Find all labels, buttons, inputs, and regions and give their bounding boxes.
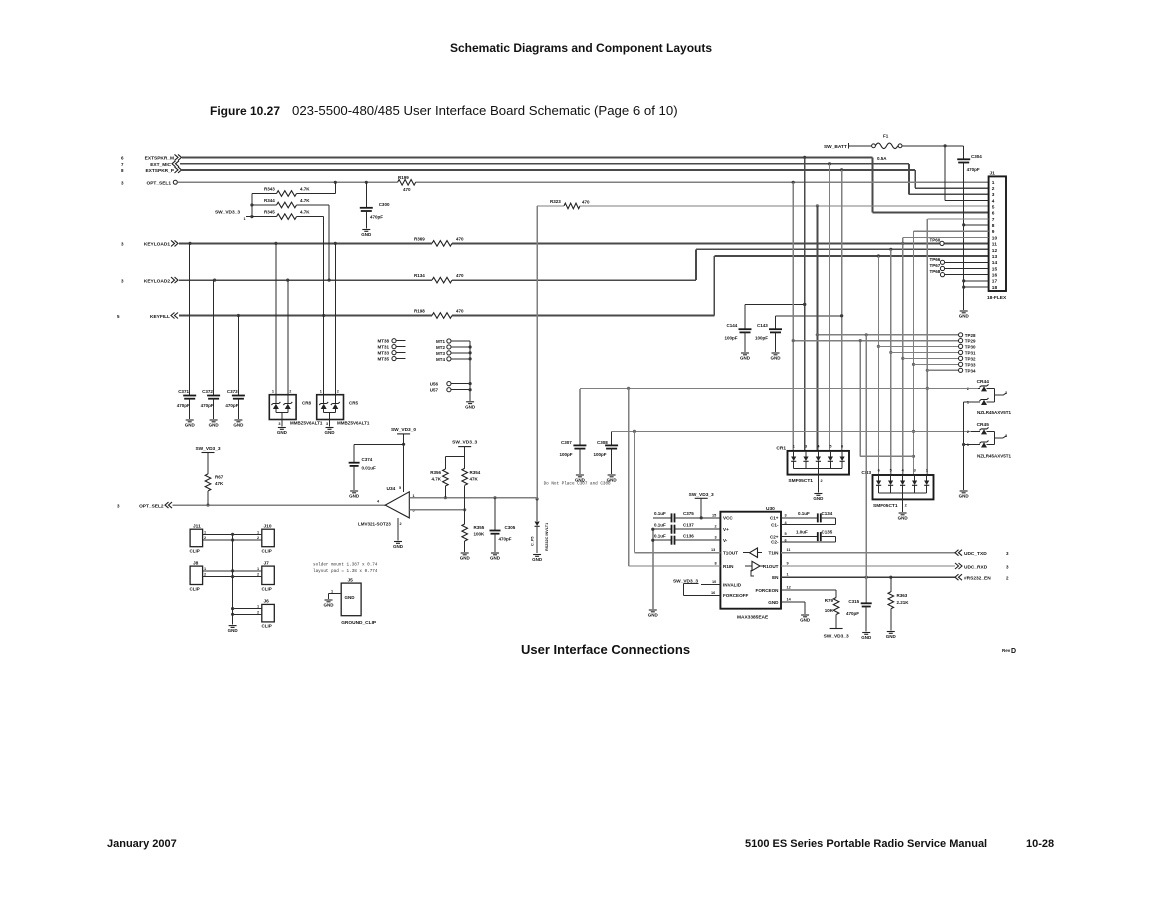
svg-text:8: 8 [121,168,124,173]
wire U34 inverting input [409,508,466,511]
svg-text:4.7K: 4.7K [431,477,441,482]
wire R345 to MMBZ pin1 [323,217,325,404]
capacitor C135 C2 loop [781,530,836,542]
svg-text:470: 470 [403,187,411,192]
wire R1IN [629,388,721,566]
ground CR44 CR45 [959,491,970,499]
svg-text:J10: J10 [264,524,272,530]
svg-text:R356: R356 [430,470,441,475]
svg-text:OPT_SEL2: OPT_SEL2 [139,504,164,510]
resistor R67 [205,453,224,506]
svg-text:6: 6 [992,211,995,217]
svg-text:MT4: MT4 [436,357,445,362]
svg-text:EN: EN [772,575,779,580]
svg-text:U30: U30 [766,506,775,512]
svg-text:1: 1 [257,567,259,571]
svg-text:GND: GND [325,430,336,435]
svg-text:V-: V- [723,538,728,543]
label MMBZ5V6ALT1 left [290,421,323,426]
svg-text:J11: J11 [193,524,201,530]
svg-text:MAX3385EAE: MAX3385EAE [737,615,769,621]
net label SW_VD3_3 INVALID [673,579,720,596]
svg-text:100pF: 100pF [560,452,573,457]
svg-text:10: 10 [992,235,998,241]
svg-text:VCC: VCC [723,516,733,521]
connector J11 [190,524,203,554]
svg-text:470: 470 [456,273,464,278]
svg-text:R345: R345 [264,210,275,215]
svg-text:1: 1 [204,530,206,534]
wire CR5 pin leads [320,390,339,394]
svg-text:3: 3 [326,422,328,426]
svg-text:GND: GND [959,314,970,319]
svg-text:MMBZ5V6ALT1: MMBZ5V6ALT1 [337,421,370,426]
wire CR3 pin3 feed pin9 [912,231,915,475]
svg-text:OPT_SEL1: OPT_SEL1 [146,181,171,187]
svg-text:18: 18 [992,285,998,291]
svg-text:EXT_MIC: EXT_MIC [150,162,171,168]
test points U56 U57 [430,382,472,393]
resistor R354 [462,468,481,510]
svg-text:3: 3 [121,242,124,247]
wire CR3 pin6 feed from KEYFILL [877,256,880,475]
svg-text:MT33: MT33 [377,351,389,356]
svg-text:CLIP: CLIP [262,549,272,554]
svg-text:C1-: C1- [771,522,779,527]
svg-text:470pF: 470pF [225,403,238,408]
resistor R343 [252,187,335,197]
wire KEYLOAD2 [179,248,989,282]
capacitor C307 [560,389,587,474]
dual diode CR44 NZLR45AXV5T1 [967,379,1012,415]
svg-text:5: 5 [829,445,831,449]
svg-text:1: 1 [331,589,333,593]
wire C373 lead [237,316,239,396]
svg-text:EXTSPKR_M: EXTSPKR_M [145,156,174,162]
svg-text:GND: GND [648,613,659,618]
svg-text:4: 4 [377,500,380,504]
label MMBZ5V6ALT1 right [337,421,370,426]
svg-text:R67: R67 [215,475,224,480]
resistor R323 [537,199,590,209]
svg-text:R355: R355 [474,525,485,530]
wire U34 noninverting input [409,496,537,499]
svg-text:5: 5 [992,205,995,211]
wire EXT_MIC bus [180,162,989,194]
wire OPT_SEL1 [178,181,989,184]
resistor R363 [888,577,909,630]
svg-text:2.21K: 2.21K [897,600,910,605]
svg-text:3: 3 [121,278,124,283]
svg-text:11: 11 [992,242,997,248]
revision mark [1002,648,1016,655]
ground C307 [575,475,586,483]
wire MT ground bus [469,341,471,401]
svg-text:RS232C INVLT1: RS232C INVLT1 [545,523,549,551]
svg-text:2: 2 [257,610,259,614]
svg-text:C134: C134 [822,511,833,516]
svg-text:1: 1 [926,469,928,473]
svg-text:1: 1 [204,567,206,571]
svg-text:R198: R198 [414,309,425,314]
ground CR5 [325,420,336,436]
svg-text:3: 3 [805,445,807,449]
svg-text:GND: GND [460,556,471,561]
capacitor C143 [755,314,843,352]
wire CR3 pin4 feed from KEYLOAD1 [901,237,904,475]
wire T1IN UDC_TXD [781,550,1009,558]
svg-text:R134: R134 [414,273,425,278]
svg-text:EXTSPKR_P: EXTSPKR_P [145,168,174,174]
svg-text:C143: C143 [757,323,768,328]
svg-text:100pF: 100pF [725,336,738,341]
svg-text:KEYFILL: KEYFILL [150,314,170,320]
resistor R344 [252,198,329,208]
ground C143 [771,353,782,361]
svg-text:C300: C300 [379,202,390,207]
svg-text:3: 3 [121,181,124,186]
svg-text:J6: J6 [264,599,270,605]
svg-text:CLIP: CLIP [262,624,272,629]
svg-text:R199: R199 [398,175,409,180]
svg-text:0.01uF: 0.01uF [362,466,377,471]
svg-text:10-28: 10-28 [1026,838,1054,850]
wire resistor feed bus [250,194,253,219]
svg-text:1: 1 [787,573,789,577]
svg-text:CR8: CR8 [302,401,311,406]
ground R363 [886,632,897,640]
connector J10 [262,524,275,554]
svg-text:47K: 47K [470,477,479,482]
svg-text:12: 12 [787,586,791,590]
svg-text:6: 6 [878,469,880,473]
svg-text:TP29: TP29 [965,339,976,344]
wire U30 GND pin [781,602,805,614]
svg-text:FORCEOFF: FORCEOFF [723,593,748,598]
diode array CR3 SMF05CT1 [861,469,933,509]
svg-text:2: 2 [257,573,259,577]
svg-text:13: 13 [992,254,998,260]
svg-text:10K: 10K [825,608,834,613]
wire clip ground bus [232,534,234,624]
svg-text:U34: U34 [387,486,396,492]
wire SW_BATT to pin4 and C304 [902,144,989,200]
svg-text:023-5500-480/485 User Interfac: 023-5500-480/485 User Interface Board Sc… [292,103,678,118]
wire R1OUT UDC_RXD [781,563,1009,571]
svg-text:MT31: MT31 [377,345,389,350]
wire R343 to OPT_SEL1 [334,182,336,193]
svg-text:SW_VD3_3: SW_VD3_3 [824,634,849,640]
pin numbers U30 right [785,513,792,601]
wire J1 pin10 [903,236,989,238]
wire R344 to KEYLOAD2 [328,205,330,280]
wire KEYLOAD1 to MMBZ1 pin1 [275,243,277,404]
svg-text:INVALID: INVALID [723,583,742,588]
svg-text:MT35: MT35 [377,357,389,362]
capacitor C305 [490,498,516,552]
svg-text:C304: C304 [971,154,982,159]
ground U30 [800,615,811,623]
svg-text:TP67: TP67 [930,263,941,268]
wire TP29 step [860,341,913,457]
wire R323 to J1 pin5 [580,204,989,207]
net label SW_VD3_3 below R79 [824,629,849,640]
zener dual CR5 MMBZ5V6ALT1 [317,395,359,420]
svg-text:R369: R369 [414,237,425,242]
svg-text:CLIP: CLIP [190,587,200,592]
svg-text:GND: GND [898,516,909,521]
svg-text:17: 17 [992,279,998,285]
ground C305 [490,553,501,561]
svg-text:R344: R344 [264,198,275,203]
svg-text:0.1uF: 0.1uF [654,511,666,516]
wire KEYLOAD2 to MMBZ1 pin2 [287,280,289,404]
wire R354 R356 feed [445,447,464,469]
svg-text:GND: GND [800,618,811,623]
svg-text:January 2007: January 2007 [107,838,177,850]
wire T1OUT [635,431,721,552]
wire CR1 pin4 feed from R323 line [816,206,819,451]
svg-text:User Interface Connections: User Interface Connections [521,642,690,657]
svg-text:CR1: CR1 [776,446,786,452]
svg-text:C2+: C2+ [770,534,779,539]
svg-text:Rev: Rev [1002,648,1011,653]
svg-text:11: 11 [787,548,791,552]
svg-text:TP33: TP33 [965,362,976,367]
svg-text:2: 2 [967,430,969,434]
capacitor C373 [225,389,245,428]
svg-text:C144: C144 [727,323,738,328]
svg-text:470: 470 [582,199,590,204]
svg-text:4.7K: 4.7K [300,210,310,215]
svg-text:CR44: CR44 [977,379,990,385]
svg-text:3: 3 [1005,434,1007,438]
svg-text:R363: R363 [897,593,908,598]
svg-text:3: 3 [715,536,717,540]
svg-text:UDC_RXD: UDC_RXD [964,565,988,571]
pin numbers U30 left [711,513,717,595]
svg-text:5: 5 [785,532,787,536]
svg-text:UDC_TXD: UDC_TXD [964,551,987,557]
svg-text:GND: GND [349,494,360,499]
node KEYLOAD1 [121,240,178,247]
svg-text:U57: U57 [430,388,439,393]
test points MT1-MT4 [436,339,472,362]
test point TP60 [930,238,945,246]
svg-text:R79: R79 [825,598,834,603]
ground U34 [393,542,404,550]
resistor R345 [252,210,324,220]
node EXT_MIC [121,161,179,168]
svg-text:GND: GND [185,423,196,428]
svg-text:4: 4 [992,198,995,204]
svg-text:2: 2 [1006,576,1009,581]
svg-text:2: 2 [204,573,206,577]
svg-text:47K: 47K [215,481,224,486]
svg-text:3: 3 [1006,565,1009,570]
wire CR3 pin5 feed from KEYLOAD2 [889,249,892,475]
node EXTSPKR_P [121,167,182,174]
svg-text:2: 2 [337,390,339,394]
ground U30 caps [648,610,659,618]
figure caption [210,103,678,118]
svg-text:KEYLOAD1: KEYLOAD1 [144,242,170,248]
resistor R369 [414,237,464,247]
svg-text:Figure 10.27: Figure 10.27 [210,104,280,118]
svg-text:3: 3 [992,192,995,198]
capacitor C372 [201,389,221,428]
svg-text:16: 16 [711,591,715,595]
svg-text:MMBZ5V6ALT1: MMBZ5V6ALT1 [290,421,323,426]
svg-text:2: 2 [905,504,907,508]
node KEYLOAD2 [121,277,178,284]
ground C308 [607,475,618,483]
svg-text:470: 470 [456,309,464,314]
wire KEYFILL [179,254,989,317]
capacitor C308 [594,431,619,474]
svg-text:1: 1 [793,445,795,449]
svg-text:V+: V+ [723,527,729,532]
wire J11-J10 [203,530,262,541]
dual diode CR45 NZLR45AXV5T1 [967,422,1012,459]
net label SW_VD3_3 at VCC [689,492,714,518]
footer left [107,838,177,850]
svg-text:470pF: 470pF [177,403,190,408]
svg-text:MT2: MT2 [436,345,445,350]
wire U34 output gnd lead [397,518,399,541]
svg-text:SW_VD3_3: SW_VD3_3 [689,492,714,498]
svg-text:#RS232_EN: #RS232_EN [964,576,991,582]
capacitor C371 [177,389,197,428]
footer right [745,838,1054,850]
svg-text:4.7K: 4.7K [300,198,310,203]
svg-text:100pF: 100pF [755,336,768,341]
svg-text:GND: GND [228,628,239,633]
test point group TP28-TP34 [792,333,976,374]
ground for C_P5 [532,555,543,563]
svg-text:U56: U56 [430,382,439,387]
svg-text:0.1uF: 0.1uF [654,533,666,538]
svg-text:470pF: 470pF [846,611,859,616]
resistor R79 FORCEON [781,590,839,629]
svg-text:1.0uF: 1.0uF [796,530,808,535]
capacitor C134 C1 loop [781,511,836,525]
svg-text:LMV321-SOT23: LMV321-SOT23 [358,522,391,527]
connector J5 GROUND_CLIP [341,577,377,626]
svg-text:GND: GND [393,544,404,549]
svg-text:1: 1 [244,217,246,221]
node OPT_SEL1 [121,180,177,186]
page header [450,41,712,55]
node OPT_SEL2 [117,502,172,510]
svg-text:FORCEON: FORCEON [756,588,780,593]
svg-text:2: 2 [992,186,995,192]
capacitor C144 [725,303,807,352]
svg-text:GND: GND [277,430,288,435]
svg-text:2: 2 [289,390,291,394]
svg-text:CLIP: CLIP [190,549,200,554]
svg-text:MT3: MT3 [436,351,445,356]
svg-text:C_P5: C_P5 [531,537,535,547]
svg-text:16: 16 [992,273,998,279]
svg-text:TP34: TP34 [965,368,976,373]
svg-text:Schematic Diagrams and Compone: Schematic Diagrams and Component Layouts [450,41,712,55]
svg-text:8: 8 [992,223,995,229]
ground CR3 [898,513,909,521]
svg-text:J8: J8 [193,561,199,567]
connector J6 [262,599,275,629]
svg-text:GND: GND [886,634,897,639]
svg-text:GND: GND [345,595,356,600]
svg-text:8: 8 [715,562,717,566]
svg-text:5100 ES Series Portable Radio: 5100 ES Series Portable Radio Service Ma… [745,838,987,850]
net label SW_VD3_3 [215,210,252,221]
svg-text:2: 2 [821,479,823,483]
svg-text:SMF05CT1: SMF05CT1 [873,503,898,509]
svg-text:TP31: TP31 [965,350,976,355]
diode C_P5 on RS232C_INVLT1 [531,499,550,553]
svg-text:100K: 100K [474,532,486,537]
svg-text:7: 7 [992,217,995,223]
svg-text:TP66: TP66 [930,257,941,262]
svg-text:4.7K: 4.7K [300,187,310,192]
ground R355 [460,553,471,561]
resistor R198 [414,309,464,319]
svg-text:NZLR45AXV5T1: NZLR45AXV5T1 [977,410,1012,415]
node EXTSPKR_M [121,154,182,161]
wire CR1 pin3 feed from EXTSPKR_M [803,157,806,451]
svg-text:C137: C137 [683,522,694,527]
capacitor C300 [360,182,390,237]
resistor R356 [430,469,448,498]
capacitor C375 on VCC [653,511,720,522]
test points MT38 MT31 MT33 MT35 [377,339,405,362]
svg-text:2: 2 [715,525,717,529]
wire CR44 CR45 pin1 ground bus [962,402,980,490]
svg-text:15: 15 [712,513,716,517]
wire EN RS232_EN [781,574,1009,582]
svg-text:470pF: 470pF [499,537,512,542]
svg-text:18-FLEX: 18-FLEX [987,295,1007,301]
ground CR1 [813,494,824,502]
svg-text:solder mount 1.387 x 0.74: solder mount 1.387 x 0.74 [313,563,378,568]
connector J7 [262,561,275,592]
svg-text:12: 12 [992,248,998,254]
wire CR1 pin2 [818,475,822,493]
svg-text:GND: GND [768,600,779,605]
svg-text:TP68: TP68 [930,269,941,274]
svg-text:CLIP: CLIP [262,587,272,592]
svg-text:SW_VD3_3: SW_VD3_3 [215,210,240,216]
svg-text:3: 3 [914,469,916,473]
wire J8-J7 [203,567,262,578]
svg-text:C135: C135 [822,530,833,535]
svg-text:GND: GND [861,635,872,640]
net label SW_VD3_3 at R354 [452,440,477,447]
svg-text:J5: J5 [348,577,354,583]
diode array CR1 SMF05CT1 [776,445,849,485]
wire C372 lead [213,280,215,395]
svg-text:470: 470 [456,237,464,242]
svg-text:4: 4 [817,445,820,449]
wire EXTSPKR_M bus [182,156,989,213]
svg-text:R354: R354 [470,470,481,475]
wire CR1 pin6 feed from EXTSPKR_P [840,170,843,451]
svg-text:C305: C305 [505,525,516,530]
wire J1 pin7 [927,218,988,220]
svg-text:TP28: TP28 [965,333,976,338]
svg-text:1: 1 [992,180,995,186]
